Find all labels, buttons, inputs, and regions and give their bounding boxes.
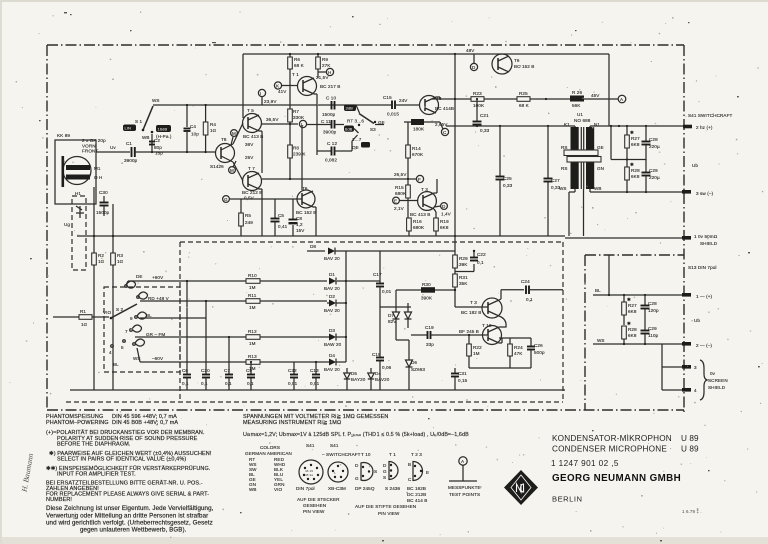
- svg-text:RT 3...6: RT 3...6: [347, 119, 364, 124]
- svg-text:25V: 25V: [245, 155, 254, 160]
- switch S2 arm: [110, 304, 137, 319]
- svg-text:10p: 10p: [191, 132, 199, 137]
- svg-text:C29: C29: [649, 168, 658, 173]
- DIN 7pol connector diagram: [296, 460, 323, 491]
- resistor R4 1G: [203, 104, 216, 153]
- wire supply corner down right: [608, 54, 610, 126]
- stamp R18 180K black resistor: [404, 119, 440, 132]
- svg-text:S13 DIN 7pol: S13 DIN 7pol: [688, 265, 717, 270]
- svg-text:S 1: S 1: [135, 119, 143, 124]
- svg-text:BC 414B: BC 414B: [435, 106, 454, 111]
- transformer winding labels: [559, 145, 604, 191]
- svg-text:RS: RS: [561, 166, 568, 171]
- svg-text:PHANTOM–POWERING: PHANTOM–POWERING: [46, 420, 109, 426]
- stamp LIN (black label): [123, 125, 136, 132]
- capsule ground column: [93, 187, 95, 390]
- GR wire: [135, 336, 246, 338]
- +48V wire: [140, 300, 246, 302]
- svg-text:1G: 1G: [81, 322, 88, 327]
- svg-text:R5: R5: [245, 213, 251, 218]
- wire diode bus to ground: [380, 372, 409, 390]
- resistor R2 1G: [92, 253, 105, 265]
- shield wire to pin1: [565, 237, 684, 239]
- wire F rail to T7b collector: [434, 192, 437, 194]
- svg-text:WS: WS: [559, 186, 567, 191]
- capacitor C29b 110p: [641, 320, 659, 344]
- svg-text:500p: 500p: [534, 350, 545, 355]
- svg-text:VIO: VIO: [274, 487, 283, 492]
- main output rail to transformer: [446, 125, 566, 127]
- capacitor C24 0,1 series: [521, 279, 563, 302]
- svg-text:R1: R1: [80, 309, 86, 314]
- resistor R19 6K8: [434, 209, 449, 236]
- svg-text:C27: C27: [551, 178, 560, 183]
- svg-text:2 hz (+): 2 hz (+): [696, 125, 713, 130]
- stamp 3dB black label: [344, 105, 356, 112]
- svg-text:180K: 180K: [413, 127, 425, 132]
- svg-text:(H-Pa.): (H-Pa.): [156, 134, 172, 139]
- resistor R10 1M: [246, 273, 327, 290]
- capacitor C28 220u: [642, 126, 660, 160]
- capsule polarization dashed box: [72, 196, 86, 270]
- svg-text:E: E: [394, 199, 397, 204]
- transistor T5 BC413B: [243, 108, 264, 160]
- svg-text:GN: GN: [597, 166, 604, 171]
- svg-text:R28: R28: [628, 327, 637, 332]
- svg-text:(+)=POLARITÄT BEI DRUCKANSTIEG: (+)=POLARITÄT BEI DRUCKANSTIEG VOR DER M…: [46, 429, 205, 436]
- resistor R3 1G: [111, 253, 124, 265]
- svg-text:AUF DIE STECKER: AUF DIE STECKER: [297, 497, 340, 502]
- svg-text:R19: R19: [440, 219, 449, 224]
- test point legend: [448, 457, 481, 497]
- resistor R5 249: [239, 199, 254, 236]
- lower circuit connection wires: [346, 251, 455, 352]
- svg-text:R29: R29: [459, 256, 468, 261]
- svg-text:NUMBER!: NUMBER!: [46, 497, 72, 503]
- resistor R27b 6K8: [622, 295, 637, 325]
- svg-text:C28: C28: [648, 301, 657, 306]
- capsule membrane M2 (black label bar): [66, 175, 90, 180]
- svg-text:BAW 20: BAW 20: [324, 342, 342, 347]
- svg-text:T 1: T 1: [389, 452, 396, 457]
- svg-text:U 89: U 89: [681, 434, 699, 443]
- svg-text:DE: DE: [136, 274, 143, 279]
- svg-text:DIN 45 B0B +48V; 0,7 mA: DIN 45 B0B +48V; 0,7 mA: [112, 420, 178, 426]
- svg-text:BAV 20: BAV 20: [324, 308, 340, 313]
- svg-text:45 3a: 45 3a: [305, 473, 313, 477]
- wire transformer secondary top to output rail: [590, 125, 684, 127]
- svg-text:–60V: –60V: [152, 356, 164, 361]
- resistor R15 680K: [395, 179, 410, 218]
- svg-text:1 — (+): 1 — (+): [696, 294, 713, 299]
- svg-text:0,06: 0,06: [382, 365, 392, 370]
- resistor R29 39K: [453, 251, 474, 274]
- capsule membrane M1 (black label bar): [66, 165, 90, 170]
- svg-text:3dB: 3dB: [346, 106, 354, 111]
- svg-text:D3: D3: [329, 328, 335, 333]
- svg-text:B: B: [408, 462, 411, 467]
- svg-text:56K: 56K: [572, 103, 581, 108]
- svg-text:0,1: 0,1: [247, 381, 254, 386]
- svg-text:S: S: [383, 475, 386, 480]
- svg-text:R4: R4: [210, 122, 216, 127]
- transistor T3 BC182B: [461, 298, 502, 318]
- svg-text:110p: 110p: [648, 333, 659, 338]
- diode D2 BAV20: [324, 294, 346, 313]
- svg-text:R23: R23: [473, 91, 482, 96]
- svg-text:C31: C31: [458, 371, 467, 376]
- wire T3 collector: [499, 290, 524, 300]
- capsule value label 2x0A 20p: [82, 138, 106, 154]
- svg-text:KONDENSATOR-MIKROPHON: KONDENSATOR-MIKROPHON: [552, 434, 672, 443]
- svg-text:1,2: 1,2: [296, 222, 303, 227]
- S13 pin 3 wires: [662, 344, 684, 390]
- svg-text:WB: WB: [594, 186, 602, 191]
- svg-text:R16: R16: [413, 219, 422, 224]
- svg-text:C24: C24: [521, 279, 530, 284]
- svg-text:MESSPUNKTE: MESSPUNKTE: [448, 485, 481, 490]
- resistor R24 47K: [508, 338, 524, 368]
- svg-text:FRONT: FRONT: [82, 149, 98, 154]
- svg-text:BAV 20: BAV 20: [324, 286, 340, 291]
- DP245Q transistor pinout: [355, 463, 377, 491]
- svg-text:T8: T8: [221, 137, 227, 142]
- svg-text:0,1: 0,1: [477, 260, 484, 265]
- svg-text:0,1: 0,1: [526, 297, 533, 302]
- svg-text:0,01: 0,01: [382, 289, 392, 294]
- svg-text:C17: C17: [373, 272, 382, 277]
- wire T6 collector feedback column: [301, 125, 303, 190]
- svg-text:GERMAN AMERICAN: GERMAN AMERICAN: [245, 451, 292, 456]
- svg-text:80p: 80p: [154, 145, 162, 150]
- svg-text:T 3: T 3: [470, 300, 477, 305]
- svg-text:BAV20: BAV20: [375, 377, 390, 382]
- svg-text:15V: 15V: [296, 228, 305, 233]
- svg-text:0,01: 0,01: [288, 381, 298, 386]
- svg-text:C18: C18: [372, 352, 381, 357]
- resistor R13 1M: [246, 354, 327, 371]
- svg-text:1 6.79 ‡ .: 1 6.79 ‡ .: [682, 509, 702, 514]
- svg-text:33p: 33p: [426, 342, 434, 347]
- svg-text:D2: D2: [329, 294, 335, 299]
- resistor R26 56K black stamp: [570, 90, 618, 108]
- diode D8 BAV20 top row: [307, 244, 346, 261]
- svg-text:Ug: Ug: [64, 222, 70, 227]
- svg-text:24V: 24V: [399, 98, 408, 103]
- svg-text:C4: C4: [190, 124, 196, 129]
- svg-text:M1: M1: [94, 166, 101, 171]
- note text feed-in: [46, 465, 211, 478]
- base rail of T5 with L test point: [262, 117, 307, 128]
- svg-text:3900p: 3900p: [124, 158, 138, 163]
- resistor R23 100K: [471, 91, 517, 108]
- svg-text:T 5: T 5: [247, 108, 254, 113]
- svg-text:WB: WB: [249, 487, 257, 492]
- svg-text:VIO: VIO: [103, 310, 112, 315]
- FET T10 BF245B: [459, 323, 502, 345]
- note text replacement: [46, 480, 209, 504]
- transformer U1 secondary winding (black bar): [586, 127, 594, 189]
- svg-text:680K: 680K: [413, 225, 425, 230]
- wire T1 emitter down: [314, 93, 317, 95]
- svg-text:C26: C26: [534, 343, 543, 348]
- resistor R28 6K8: [625, 167, 640, 192]
- svg-text:1G: 1G: [210, 128, 217, 133]
- svg-text:BC 413 B: BC 413 B: [243, 134, 263, 139]
- Neumann diamond logo: [504, 470, 538, 505]
- svg-text:BC 217 B: BC 217 B: [320, 84, 340, 89]
- svg-text:5: 5: [121, 345, 124, 350]
- svg-text:68 K: 68 K: [519, 103, 530, 108]
- S41 pin 1 shield: [682, 234, 718, 246]
- wire T3 base: [455, 306, 488, 308]
- svg-text:C20: C20: [201, 368, 210, 373]
- svg-text:C25: C25: [503, 176, 512, 181]
- resistor R14 670K: [406, 122, 424, 180]
- capacitor C8 1,2/15V electrolytic: [289, 199, 306, 236]
- emitter column x262: [261, 131, 263, 173]
- svg-text:C19: C19: [425, 325, 434, 330]
- transformer U1 primary winding (black bar): [571, 127, 579, 189]
- svg-text:S 2: S 2: [116, 307, 124, 312]
- test point M2 circle lower: [229, 161, 236, 173]
- transistor T7b BC413B: [410, 187, 436, 217]
- wire T5 collector column: [242, 54, 244, 118]
- svg-text:680K: 680K: [395, 191, 407, 196]
- long rail to F node: [262, 172, 424, 183]
- capacitor C27 0,33: [544, 126, 561, 236]
- +60V wire top: [126, 275, 246, 285]
- svg-text:23,9V: 23,9V: [264, 99, 277, 104]
- wire T7 collector down: [259, 188, 262, 190]
- dashed box around pattern switch S2: [104, 287, 180, 372]
- wire transformer primary bottom: [574, 189, 576, 192]
- capacitor C23 0,33: [496, 126, 513, 236]
- diode bus vertical: [345, 251, 347, 362]
- connector header labels: [306, 443, 422, 457]
- svg-text:BAV 20: BAV 20: [324, 367, 340, 372]
- svg-text:R8: R8: [293, 146, 299, 151]
- diode D3 BAW20: [324, 328, 346, 347]
- svg-text:T6: T6: [302, 186, 308, 191]
- svg-text:2,1V: 2,1V: [394, 206, 405, 211]
- svg-text:R14: R14: [412, 146, 421, 151]
- svg-text:0,5V: 0,5V: [244, 196, 255, 201]
- svg-text:41V: 41V: [278, 89, 287, 94]
- svg-text:R31: R31: [459, 275, 468, 280]
- capacitor C30 1500p: [96, 190, 110, 216]
- svg-text:1G: 1G: [117, 259, 124, 264]
- svg-text:BAV 20: BAV 20: [324, 256, 340, 261]
- svg-text:C8: C8: [296, 216, 302, 221]
- S2 contact 8 WS: [133, 339, 145, 361]
- capacitor C9 0,1: [246, 361, 255, 390]
- svg-text:BC 152 B: BC 152 B: [514, 64, 534, 69]
- svg-text:0,015: 0,015: [387, 112, 399, 117]
- S2 contact 9 BL: [130, 312, 206, 321]
- svg-text:35K: 35K: [459, 281, 468, 286]
- svg-text:9: 9: [130, 316, 133, 321]
- svg-text:100K: 100K: [473, 103, 485, 108]
- svg-text:39K: 39K: [459, 262, 468, 267]
- svg-text:S41: S41: [306, 443, 315, 448]
- svg-text:Ub: Ub: [692, 163, 698, 168]
- capacitor C13 0,01: [310, 361, 320, 390]
- svg-text:BC 414 B: BC 414 B: [407, 498, 427, 503]
- svg-text:S3: S3: [370, 127, 376, 132]
- S2 contact 7 GR: [125, 325, 165, 337]
- svg-text:1M: 1M: [473, 351, 480, 356]
- handwritten signature left margin: [19, 452, 35, 493]
- capacitor C32 0,01: [288, 362, 298, 390]
- svg-text:S 2436: S 2436: [385, 486, 401, 491]
- svg-text:U 89: U 89: [681, 445, 699, 454]
- svg-text:BEFORE THE DIAPHRAGM.: BEFORE THE DIAPHRAGM.: [57, 442, 131, 448]
- second supply rail: [432, 53, 471, 100]
- svg-text:249: 249: [245, 220, 253, 225]
- resistor R6 68K: [288, 53, 305, 109]
- small rectifier D9 BAV20 vertical: [368, 368, 390, 390]
- transformer U1 core lines: [581, 127, 583, 189]
- svg-text:R27: R27: [631, 136, 640, 141]
- ground rail mid: [77, 235, 565, 237]
- capacitor C26 500p: [527, 338, 545, 368]
- FET T8 S1426: [210, 137, 235, 169]
- note text copyright: [46, 505, 214, 534]
- svg-text:1 0v 50mΩ: 1 0v 50mΩ: [694, 234, 718, 239]
- wire T6 base row: [230, 198, 302, 200]
- svg-text:C13: C13: [310, 368, 319, 373]
- svg-text:T6: T6: [514, 58, 520, 63]
- transistor T6b BC414B: [420, 96, 455, 115]
- svg-text:T 10: T 10: [361, 452, 371, 457]
- wire T8 source to T7 base: [233, 162, 243, 181]
- svg-text:C7: C7: [224, 368, 230, 373]
- inner dashed box around DC filter section: [180, 242, 563, 402]
- svg-text:R25: R25: [519, 91, 528, 96]
- svg-text:36,5V: 36,5V: [266, 117, 279, 122]
- capacitor C17 0,01: [346, 251, 392, 357]
- test point K circle: [274, 82, 287, 94]
- svg-text:F: F: [418, 177, 421, 182]
- svg-text:C 12: C 12: [327, 141, 337, 146]
- svg-text:G: G: [224, 197, 228, 202]
- svg-text:6K8: 6K8: [628, 309, 637, 314]
- svg-text:M: M: [230, 168, 234, 173]
- svg-text:D1: D1: [329, 272, 335, 277]
- svg-text:D4: D4: [329, 353, 335, 358]
- capacitor C20 0,1: [201, 300, 210, 390]
- svg-text:R12: R12: [248, 329, 257, 334]
- svg-text:0,082: 0,082: [325, 158, 337, 163]
- capacitor C21 0,33: [473, 98, 490, 133]
- svg-text:0v: 0v: [710, 371, 716, 376]
- S2436 transistor pinout: [383, 462, 401, 492]
- svg-text:BL: BL: [146, 313, 152, 318]
- svg-text:PIN VIEW: PIN VIEW: [378, 511, 400, 516]
- wire node up to C2: [151, 134, 153, 152]
- svg-text:R11: R11: [248, 293, 257, 298]
- resistor R8 239K: [288, 145, 307, 179]
- svg-text:GESEHEN: GESEHEN: [303, 503, 326, 508]
- capacitor C1 3900p: [124, 141, 138, 163]
- svg-text:16dB: 16dB: [158, 127, 168, 132]
- wire T6b collector up to supply rail: [436, 96, 440, 98]
- BL wire to S13 pin 1: [593, 288, 684, 296]
- svg-text:COLORS: COLORS: [260, 445, 280, 450]
- S2 contact 2 RD: [137, 292, 170, 301]
- svg-text:C22: C22: [477, 252, 486, 257]
- svg-text:1M: 1M: [249, 285, 256, 290]
- svg-text:SZ663: SZ663: [411, 367, 425, 372]
- resistor R30 390K black: [411, 282, 455, 301]
- svg-text:MEASURING INSTRUMENT Ri≧ 1MΩ: MEASURING INSTRUMENT Ri≧ 1MΩ: [243, 420, 341, 426]
- zener D6 SZ663: [406, 352, 426, 378]
- svg-text:D7: D7: [388, 313, 394, 318]
- supply feed wire down to converter: [454, 99, 456, 251]
- svg-text:R3: R3: [117, 253, 123, 258]
- svg-text:BF 245 B: BF 245 B: [459, 329, 479, 334]
- svg-text:SHIELD: SHIELD: [708, 385, 726, 390]
- svg-text:45V: 45V: [591, 93, 600, 98]
- svg-text:27K: 27K: [322, 63, 331, 68]
- svg-text:R6: R6: [294, 57, 300, 62]
- S13 pin 1: [682, 293, 713, 299]
- svg-text:390K: 390K: [421, 296, 433, 301]
- svg-text:H1: H1: [75, 191, 81, 196]
- svg-text:BC 212 B: BC 212 B: [242, 190, 262, 195]
- capsule KK89 outline box: [55, 133, 96, 204]
- svg-text:C9: C9: [246, 368, 252, 373]
- svg-text:PIN VIEW: PIN VIEW: [303, 509, 325, 514]
- resistor R28b 6K8: [622, 326, 637, 344]
- svg-text:G: G: [355, 476, 359, 481]
- svg-text:C32: C32: [288, 368, 297, 373]
- svg-text:R10: R10: [248, 273, 257, 278]
- svg-text:GE: GE: [597, 145, 604, 150]
- svg-text:INPUT FOR AMPLIFIER TEST.: INPUT FOR AMPLIFIER TEST.: [57, 472, 136, 478]
- S2 contact 4: [109, 345, 113, 355]
- main schematic border frame (dash-dot): [47, 45, 684, 412]
- capacitor C4 10p across rails: [184, 104, 200, 153]
- transistor T1 BC217B: [292, 72, 340, 96]
- diode D1 BAV20: [324, 272, 346, 291]
- S41 pin 3: [682, 190, 714, 196]
- svg-text:C30: C30: [99, 190, 108, 195]
- test point H circle: [316, 68, 334, 80]
- svg-text:C 10: C 10: [326, 96, 336, 101]
- svg-text:R 26: R 26: [572, 90, 582, 95]
- wire T3 emitter to T10: [499, 316, 506, 327]
- svg-text:DIN 7pol: DIN 7pol: [296, 486, 315, 491]
- svg-text:1M: 1M: [249, 305, 256, 310]
- svg-text:WS: WS: [152, 98, 160, 103]
- capacitor C18 0,06: [372, 352, 392, 372]
- svg-text:C6: C6: [182, 368, 188, 373]
- svg-text:GR – FM: GR – FM: [146, 332, 165, 337]
- svg-text:R9: R9: [322, 57, 328, 62]
- WS wire to S13 pin 2: [593, 338, 684, 345]
- svg-text:1G: 1G: [98, 259, 105, 264]
- resistor R22 1M: [467, 334, 482, 368]
- capsule K1 circle: [63, 157, 91, 185]
- svg-text:T 2 3: T 2 3: [411, 452, 422, 457]
- transformer U1 label: [564, 112, 600, 127]
- BC pinout diagram: [407, 462, 429, 504]
- capsule backplate bar: [62, 156, 65, 187]
- capacitor C10 1500p: [322, 96, 336, 118]
- svg-text:0,1: 0,1: [182, 381, 189, 386]
